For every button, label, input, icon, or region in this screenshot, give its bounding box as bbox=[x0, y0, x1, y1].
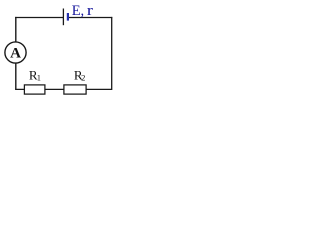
battery gap mask bbox=[64, 17, 67, 19]
resistor R2 box bbox=[64, 85, 86, 94]
wire right side bbox=[111, 17, 113, 90]
svg-text:1: 1 bbox=[37, 73, 41, 83]
svg-text:2: 2 bbox=[81, 73, 85, 83]
svg-text:E,: E, bbox=[72, 3, 84, 19]
wire top-right segment bbox=[68, 17, 112, 19]
resistor R1 box bbox=[24, 85, 45, 94]
wire left side bbox=[15, 17, 17, 90]
wire bottom bbox=[15, 88, 112, 90]
battery short plate (blue) bbox=[67, 13, 69, 21]
ammeter U1 circle bbox=[5, 42, 26, 63]
wire top-left segment bbox=[15, 17, 63, 19]
svg-text:r: r bbox=[87, 3, 93, 19]
battery E long plate bbox=[62, 9, 64, 26]
svg-text:A: A bbox=[10, 45, 21, 61]
